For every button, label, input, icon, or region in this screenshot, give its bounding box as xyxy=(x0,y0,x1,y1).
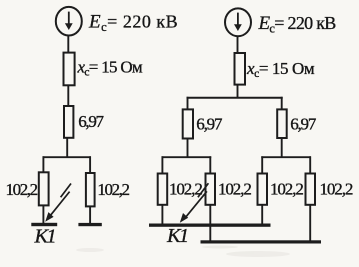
resistor 102,2 no.3 (right circuit) xyxy=(258,174,268,205)
wire resistor 4 to ground bar B xyxy=(309,205,311,241)
wire drop to right 102,2 branch (left circuit) xyxy=(89,156,91,173)
source G1 arrowhead (left) xyxy=(65,23,73,30)
svg-text:102,2: 102,2 xyxy=(270,180,303,199)
ground bar (left circuit, right branch) xyxy=(78,223,101,226)
wire resistor 3 to ground bar A xyxy=(261,205,263,224)
wire drop to resistor 2 (right circuit) xyxy=(209,156,211,173)
wire right 102,2 to ground (left circuit) xyxy=(89,206,91,223)
short-circuit arrowhead K1 (left) xyxy=(45,212,53,222)
svg-text:102,2: 102,2 xyxy=(169,180,202,199)
ground bar (left circuit, left branch) xyxy=(31,223,57,226)
wire left 102,2 to ground xyxy=(42,205,44,223)
wire right 6,97 to sub-bus (right circuit) xyxy=(281,138,283,157)
svg-text:102,2: 102,2 xyxy=(320,180,353,199)
resistor 102,2 (left circuit, right branch) xyxy=(86,173,95,206)
resistor 102,2 no.1 (right circuit) xyxy=(158,174,168,205)
wire right sub-split bus (right circuit) xyxy=(261,156,311,158)
reactance x_c (right) xyxy=(235,53,246,85)
wire resistor 2 to ground bar B xyxy=(209,205,211,241)
wire x_c to 6,97 (left) xyxy=(67,85,69,106)
wire split bus (left) xyxy=(43,156,92,158)
svg-text:6,97: 6,97 xyxy=(290,114,317,133)
svg-text:102,2: 102,2 xyxy=(6,180,38,199)
ground bar B (right circuit) xyxy=(201,240,322,243)
wire drop to left 102,2 branch xyxy=(42,156,44,172)
resistor 6,97 (left) xyxy=(64,106,73,138)
wire top split bus (right) xyxy=(187,97,283,99)
wire drop to resistor 3 (right circuit) xyxy=(261,156,263,173)
wire drop to resistor 4 (right circuit) xyxy=(309,156,311,173)
svg-text:К1: К1 xyxy=(166,225,188,247)
wire 6,97 to split (left) xyxy=(66,138,68,157)
short-circuit arrowhead K1 (right) xyxy=(180,213,188,223)
wire drop to resistor 1 (right circuit) xyxy=(161,156,163,173)
resistor 6,97 (right circuit, left) xyxy=(183,109,193,138)
svg-text:6,97: 6,97 xyxy=(196,114,223,133)
wire drop to right 6,97 (right circuit) xyxy=(281,97,283,110)
short-circuit arrow K1 (left) xyxy=(51,184,72,216)
short-circuit arrow K1 (right) xyxy=(186,183,209,217)
wire left sub-split bus (right circuit) xyxy=(162,156,212,158)
resistor 102,2 (left circuit, left branch) xyxy=(39,172,49,205)
wire resistor 1 to ground bar A xyxy=(161,205,163,224)
svg-text:Ec= 220 кВ: Ec= 220 кВ xyxy=(258,13,337,36)
wire source to x_c (left) xyxy=(67,35,69,52)
svg-text:6,97: 6,97 xyxy=(78,112,104,131)
wire source to x_c (right) xyxy=(237,36,239,53)
wire left 6,97 to sub-bus (right circuit) xyxy=(187,139,189,158)
source G1 (left) xyxy=(56,7,82,36)
resistor 6,97 (right circuit, right) xyxy=(277,109,287,138)
svg-text:К1: К1 xyxy=(34,226,56,248)
svg-text:102,2: 102,2 xyxy=(97,180,129,199)
svg-text:102,2: 102,2 xyxy=(218,180,251,199)
resistor 102,2 no.2 (right circuit) xyxy=(206,174,216,205)
wire drop to left 6,97 (right circuit) xyxy=(187,97,189,110)
wire x_c to top bus (right) xyxy=(237,85,239,98)
ground bar A (right circuit) xyxy=(149,224,271,227)
source G2 (right) xyxy=(225,8,251,36)
source G2 arrowhead (right) xyxy=(234,24,242,31)
reactance x_c (left) xyxy=(64,53,75,86)
resistor 102,2 no.4 (right circuit) xyxy=(306,174,316,205)
